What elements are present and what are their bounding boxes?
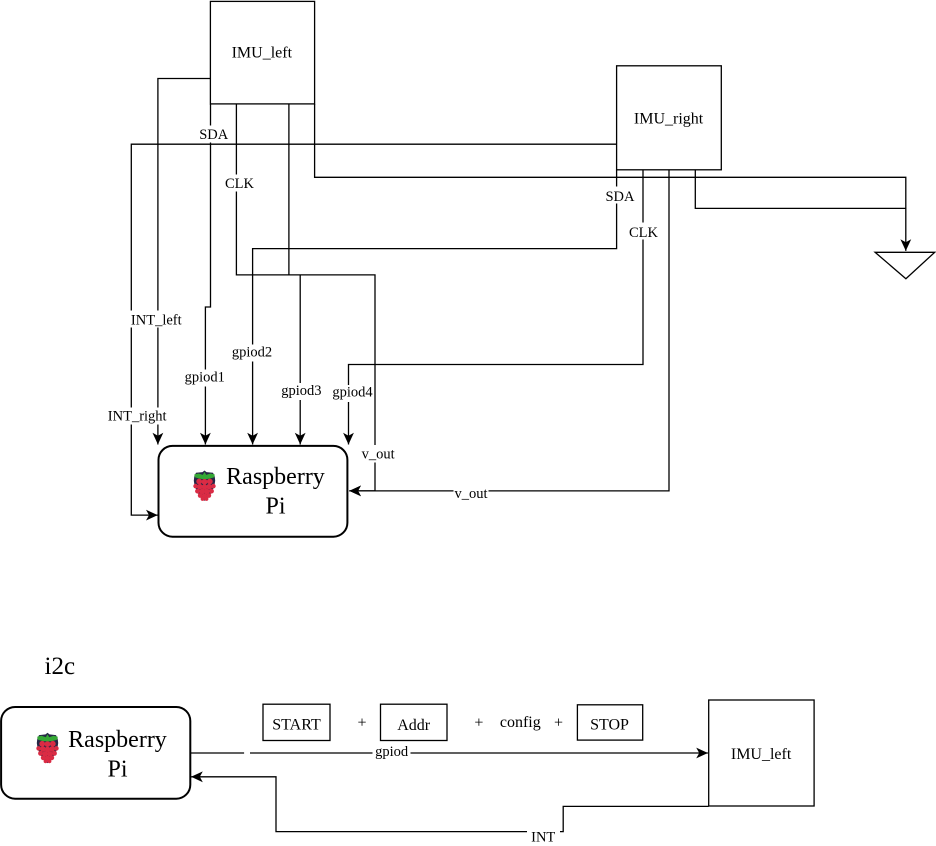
svg-text:STOP: STOP bbox=[590, 716, 629, 733]
svg-text:SDA: SDA bbox=[605, 189, 635, 205]
svg-text:Pi: Pi bbox=[265, 494, 285, 520]
svg-text:Raspberry: Raspberry bbox=[68, 727, 167, 753]
svg-text:CLK: CLK bbox=[225, 176, 255, 192]
svg-text:gpiod4: gpiod4 bbox=[332, 384, 373, 400]
svg-text:SDA: SDA bbox=[199, 127, 229, 143]
svg-text:+: + bbox=[474, 715, 483, 732]
svg-text:+: + bbox=[357, 715, 366, 732]
svg-text:INT: INT bbox=[531, 830, 555, 846]
svg-text:gpiod1: gpiod1 bbox=[185, 369, 225, 385]
svg-text:IMU_left: IMU_left bbox=[232, 45, 293, 62]
svg-text:IMU_right: IMU_right bbox=[634, 111, 704, 128]
svg-text:gpiod: gpiod bbox=[375, 744, 409, 760]
svg-text:v_out: v_out bbox=[454, 486, 487, 502]
svg-text:Addr: Addr bbox=[397, 717, 431, 734]
svg-text:config: config bbox=[500, 714, 541, 731]
svg-text:gpiod3: gpiod3 bbox=[281, 383, 321, 399]
svg-text:INT_left: INT_left bbox=[131, 313, 182, 329]
svg-text:Pi: Pi bbox=[107, 756, 127, 782]
svg-text:IMU_left: IMU_left bbox=[731, 746, 792, 763]
svg-text:Raspberry: Raspberry bbox=[226, 464, 325, 490]
svg-text:i2c: i2c bbox=[45, 653, 76, 680]
svg-text:gpiod2: gpiod2 bbox=[232, 345, 272, 361]
svg-text:+: + bbox=[554, 715, 563, 732]
svg-text:v_out: v_out bbox=[362, 447, 395, 463]
svg-text:INT_right: INT_right bbox=[108, 409, 167, 425]
svg-text:START: START bbox=[272, 717, 321, 734]
svg-text:CLK: CLK bbox=[629, 225, 659, 241]
